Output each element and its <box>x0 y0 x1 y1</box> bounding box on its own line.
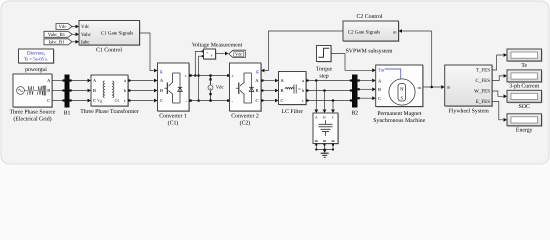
svg-text:C_FES: C_FES <box>476 78 491 84</box>
svg-text:Vabc_B1: Vabc_B1 <box>48 32 66 38</box>
svg-text:Iabc_B1: Iabc_B1 <box>49 39 66 45</box>
svg-text:Ts = 5e-05 s.: Ts = 5e-05 s. <box>24 56 48 62</box>
svg-text:m: m <box>417 85 421 90</box>
svg-text:+: + <box>207 51 209 55</box>
svg-text:Tm: Tm <box>378 67 385 72</box>
svg-text:W_FES: W_FES <box>474 89 490 95</box>
svg-text:Three Phase Source: Three Phase Source <box>9 108 55 115</box>
svg-text:a: a <box>302 78 304 83</box>
svg-text:B: B <box>378 87 381 92</box>
svg-text:step: step <box>319 73 328 79</box>
svg-text:c: c <box>302 98 304 103</box>
svg-text:E_FES: E_FES <box>476 99 490 105</box>
svg-text:S: S <box>400 95 403 101</box>
svg-text:Vdc: Vdc <box>59 24 67 30</box>
svg-text:Three Phase Transformer: Three Phase Transformer <box>80 108 139 115</box>
svg-text:▬: ▬ <box>315 138 318 142</box>
svg-text:Converter 2: Converter 2 <box>231 113 259 119</box>
svg-text:(C1): (C1) <box>168 119 179 126</box>
svg-text:B1: B1 <box>64 110 71 116</box>
svg-text:Yg: Yg <box>97 98 103 103</box>
svg-text:Permanent Magnet: Permanent Magnet <box>377 111 421 117</box>
svg-text:▬: ▬ <box>323 138 326 142</box>
svg-text:B: B <box>255 88 258 93</box>
svg-text:B2: B2 <box>351 110 358 116</box>
svg-text:LC Filter: LC Filter <box>282 108 303 115</box>
svg-text:c: c <box>124 98 126 103</box>
svg-text:▬: ▬ <box>332 138 335 142</box>
svg-text:Flywheel System: Flywheel System <box>449 107 490 114</box>
svg-text:B: B <box>160 88 163 93</box>
svg-text:a: a <box>124 78 126 83</box>
svg-text:C1 Gate Signals: C1 Gate Signals <box>101 31 134 37</box>
svg-text:C1 Control: C1 Control <box>96 47 122 54</box>
svg-text:3-ph Current: 3-ph Current <box>509 82 539 89</box>
svg-text:Vabc: Vabc <box>81 32 92 38</box>
svg-text:C: C <box>93 98 96 103</box>
svg-text:Vdc: Vdc <box>235 52 242 57</box>
svg-text:B: B <box>47 88 50 93</box>
svg-text:Converter 1: Converter 1 <box>159 113 187 119</box>
svg-text:C2 Control: C2 Control <box>357 13 383 20</box>
svg-text:C: C <box>255 98 258 103</box>
svg-text:D1: D1 <box>114 98 119 103</box>
svg-text:m: m <box>447 85 451 90</box>
svg-text:C: C <box>378 96 381 101</box>
svg-text:Te: Te <box>521 63 527 69</box>
svg-text:(C2): (C2) <box>240 119 251 126</box>
svg-text:Discrete,: Discrete, <box>27 51 45 57</box>
svg-text:B: B <box>281 88 284 93</box>
svg-text:Iabc: Iabc <box>81 40 90 46</box>
svg-text:A: A <box>315 116 318 120</box>
svg-text:v: v <box>210 86 212 90</box>
svg-text:SOC: SOC <box>519 104 530 110</box>
svg-text:B: B <box>93 88 96 93</box>
svg-text:C2 Gate Signals: C2 Gate Signals <box>348 29 381 35</box>
svg-text:(Electrical Grid): (Electrical Grid) <box>13 115 51 122</box>
svg-text:C: C <box>47 98 50 103</box>
svg-text:SVPWM subsystem: SVPWM subsystem <box>346 47 393 54</box>
svg-text:Synchronous Machine: Synchronous Machine <box>373 117 425 124</box>
svg-text:C: C <box>160 98 163 103</box>
svg-text:T_FES: T_FES <box>476 68 490 74</box>
svg-text:powergui: powergui <box>25 67 47 73</box>
svg-text:Voltage Measurement: Voltage Measurement <box>192 41 243 48</box>
svg-text:Vdc: Vdc <box>81 24 90 30</box>
svg-text:Torque: Torque <box>316 66 333 72</box>
svg-text:Vdc: Vdc <box>216 84 224 90</box>
svg-text:C: C <box>281 98 284 103</box>
svg-text:Energy: Energy <box>516 128 533 134</box>
svg-text:m: m <box>393 29 397 34</box>
